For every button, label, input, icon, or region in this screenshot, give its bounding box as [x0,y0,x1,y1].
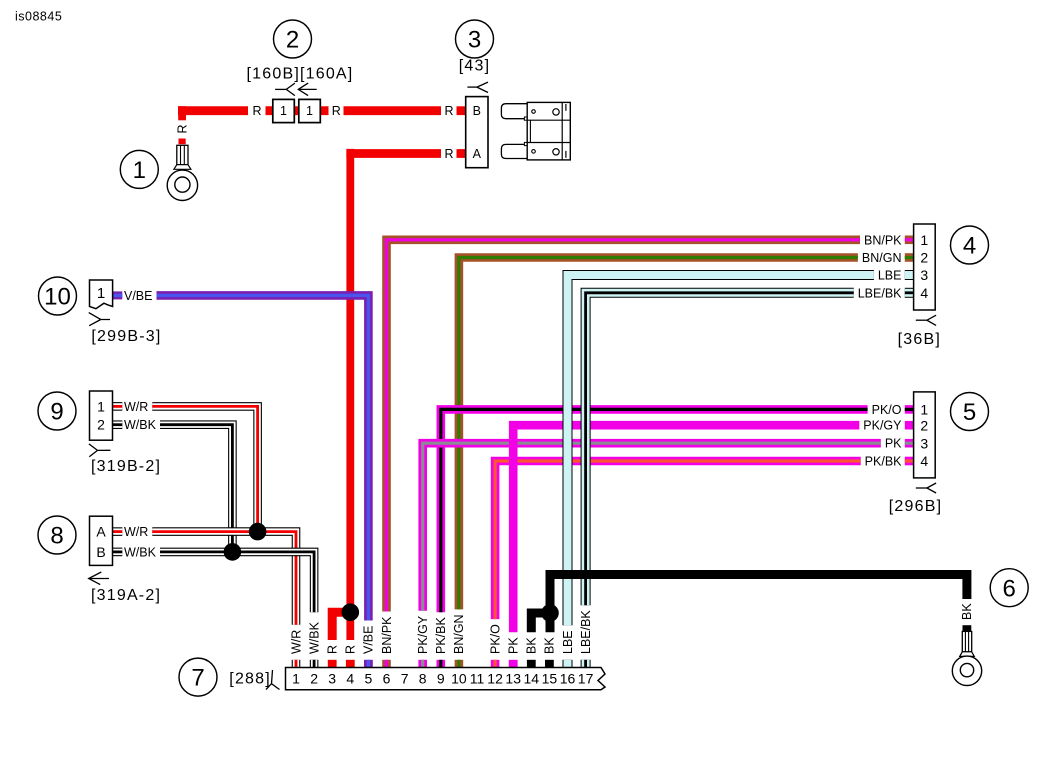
junction dot W/R [249,523,267,541]
junction dot R pins 3-4 [342,603,360,621]
svg-text:2: 2 [97,417,105,433]
svg-text:W/R: W/R [289,630,303,654]
wire R stub into [43] A [457,149,466,158]
arrow symbol [160A] [298,88,316,90]
svg-text:B: B [96,544,105,560]
svg-text:R: R [445,147,454,161]
svg-text:5: 5 [963,399,976,426]
svg-text:9: 9 [437,671,445,687]
wire R stub into [43] B [457,106,466,115]
svg-text:W/R: W/R [124,400,148,414]
svg-text:R: R [175,124,189,133]
svg-text:BN/GN: BN/GN [862,251,902,265]
wire R top run seg1 [178,106,248,115]
callout circle 3 [456,20,494,58]
svg-text:7: 7 [191,665,204,692]
svg-text:2: 2 [286,27,299,54]
wire R top run seg2 [266,106,329,115]
svg-text:V/BE: V/BE [124,289,153,303]
svg-text:A: A [473,147,482,161]
connector [43] box [466,97,488,168]
svg-text:BN/PK: BN/PK [864,233,902,247]
wire BN/GN stub pin 10 [455,660,464,668]
wire PK [296B]3 to pin 8 [423,443,881,611]
svg-text:BK: BK [543,637,557,654]
wire BK staple pin 14 [531,613,546,632]
callout circle 5 [951,393,989,431]
svg-text:1: 1 [97,285,105,302]
svg-text:PK/BK: PK/BK [865,455,902,469]
wire LBE stub pin 16 [563,660,573,668]
arrow symbol [43] [467,86,477,88]
svg-text:LBE: LBE [561,630,575,654]
wire V/BE stub at [299B-3] [113,291,123,299]
connector [299B-3] box [90,280,113,309]
fuse symbol at [43] [501,102,570,159]
svg-text:3: 3 [468,27,481,54]
svg-text:4: 4 [920,285,928,301]
wire W/BK stub pin 2 [310,660,319,668]
wire PK/BK stub pin 12 [491,660,500,668]
arrow symbol [319A-2] [89,578,109,580]
wire PK/O [296B]1 to pin 9 [441,409,868,612]
svg-text:1: 1 [920,232,928,248]
wire PK/O stub pin 9 [436,660,445,668]
svg-text:R: R [332,104,341,118]
svg-text:PK/GY: PK/GY [416,615,430,654]
svg-text:PK/O: PK/O [872,403,902,417]
connector [160B] box pin 1 [273,99,295,122]
arrow symbol [160B] [275,88,286,90]
wire BN/PK stub pin 6 [382,660,391,668]
junction dot BK pins 14-15 [541,604,559,622]
callout circle 2 [274,20,312,58]
svg-text:1: 1 [920,402,928,418]
svg-text:1: 1 [280,104,287,118]
svg-text:1: 1 [133,157,146,184]
wire BK stub pin 14 [527,660,536,668]
svg-text:10: 10 [44,284,71,311]
wire W/BK stub at [319A-2] B [113,548,123,557]
svg-text:PK: PK [507,637,521,654]
wire PK/BK [296B]4 to pin 12 [495,461,861,619]
wire R trunk to pin 4 [346,149,354,640]
callout circle 8 [38,516,76,554]
svg-text:3: 3 [920,435,928,451]
wire LBE/BK stub at [36B] [905,288,914,298]
wire W/BK from [319A-2] B to pin 2 [160,552,314,612]
wire R run to [43] A [346,149,441,158]
arrow symbol [36B] [916,319,927,321]
svg-text:R: R [253,104,262,118]
connector [296B] box [914,392,936,478]
svg-text:A: A [96,524,106,540]
svg-text:V/BE: V/BE [362,626,376,655]
callout circle 7 [179,658,217,696]
svg-text:2: 2 [920,250,928,266]
wire PK/GY [296B]2 to pin 13 [513,425,859,632]
svg-text:4: 4 [920,453,928,469]
svg-text:2: 2 [920,417,928,433]
wire W/R stub at [319A-2] A [113,527,123,536]
svg-text:1: 1 [306,104,313,118]
svg-text:BN/GN: BN/GN [452,614,466,654]
wire R stub pin 4 [346,660,355,668]
svg-text:10: 10 [451,671,467,687]
ring terminal 1 [177,145,188,164]
svg-text:13: 13 [505,671,521,687]
wire BK stub pin 15 [545,660,554,668]
svg-text:[160B][160A]: [160B][160A] [247,66,354,83]
svg-text:4: 4 [346,671,354,687]
svg-text:[319B-2]: [319B-2] [91,458,161,475]
svg-text:3: 3 [920,267,928,283]
svg-text:[43]: [43] [459,58,491,75]
wire V/BE stub pin 5 [364,660,373,668]
svg-text:8: 8 [50,523,63,550]
junction dot W/BK [224,543,242,561]
wire R stub pin 3 [328,660,337,668]
wire W/R from [319A-2] A to pin 1 [152,532,296,625]
wire PK stub at [296B] [905,439,914,448]
svg-text:LBE/BK: LBE/BK [579,610,593,654]
wire BN/GN [36B]2 to pin 10 [459,258,858,610]
wire LBE/BK stub pin 17 [581,660,591,668]
svg-text:7: 7 [401,671,409,687]
svg-text:R: R [344,645,358,654]
svg-text:R: R [445,104,454,118]
connector [36B] box [914,224,936,310]
svg-text:LBE: LBE [878,269,902,283]
svg-text:R: R [326,645,340,654]
wire BK main run to terminal 6 [550,575,967,633]
svg-text:PK/GY: PK/GY [863,419,902,433]
svg-text:5: 5 [365,671,373,687]
connector [319A-2] box [90,516,113,565]
wire W/R stub at [319B-2] 1 [113,402,123,411]
wire PK/GY stub at [296B] [905,421,914,430]
svg-text:[288]: [288] [229,670,271,687]
wire W/BK from [319B-2] 2 [160,425,232,552]
wire BN/PK [36B]1 to pin 6 [387,240,861,612]
svg-text:PK/O: PK/O [488,624,502,654]
wire LBE stub at [36B] [905,270,914,280]
connector [319B-2] box [90,391,113,440]
svg-text:B: B [473,104,481,118]
wire LBE [36B]3 to pin 16 [568,275,874,625]
svg-text:BK: BK [960,603,974,620]
wire BN/PK stub at [36B] [905,236,914,245]
svg-text:2: 2 [310,671,318,687]
svg-text:W/BK: W/BK [124,545,157,559]
wire PK/GY stub pin 13 [509,660,518,668]
svg-text:W/R: W/R [124,525,148,539]
wire LBE/BK [36B]4 to pin 17 [586,293,854,605]
svg-text:8: 8 [419,671,427,687]
wire PK stub pin 8 [418,660,427,668]
svg-text:[319A-2]: [319A-2] [91,587,161,604]
svg-text:15: 15 [542,671,558,687]
callout circle 9 [38,392,76,430]
callout circle 1 [120,150,158,188]
svg-text:PK: PK [885,437,902,451]
wire V/BE run to pin 5 [157,295,369,620]
svg-text:9: 9 [50,399,63,426]
svg-text:[296B]: [296B] [889,498,942,515]
wire R terminal-1 stub [179,139,186,145]
svg-text:is08845: is08845 [15,10,62,24]
ring terminal 6 [962,631,971,651]
svg-text:16: 16 [560,671,576,687]
arrow symbol [299B-3] [89,313,110,320]
callout circle 6 [990,569,1028,607]
wire BK terminal-6 stub [963,625,972,631]
svg-text:W/BK: W/BK [307,621,321,654]
svg-text:BK: BK [525,637,539,654]
svg-text:6: 6 [1003,575,1016,602]
wire R terminal-1 leg [178,106,186,120]
wire R staple pin 3 [332,612,346,640]
wire W/R from [319B-2] 1 [152,406,257,531]
svg-text:6: 6 [383,671,391,687]
wire PK/BK stub at [296B] [905,457,914,466]
wire PK/O stub at [296B] [905,405,914,414]
svg-text:LBE/BK: LBE/BK [858,286,902,300]
connector [288] box [286,668,606,690]
svg-text:1: 1 [292,671,300,687]
svg-text:1: 1 [97,398,105,414]
svg-text:4: 4 [963,233,976,260]
svg-text:11: 11 [470,671,485,687]
connector [160A] box pin 1 [299,99,321,122]
svg-text:12: 12 [487,671,503,687]
callout circle 4 [951,226,989,264]
wire W/R stub pin 1 [292,660,301,668]
svg-text:BN/PK: BN/PK [380,616,394,654]
wire W/BK stub at [319B-2] 2 [113,420,123,429]
callout circle 10 [39,277,77,315]
arrow symbol [319B-2] [89,444,111,451]
svg-text:3: 3 [328,671,336,687]
svg-text:[299B-3]: [299B-3] [91,328,161,345]
wire R top run seg3 [344,106,442,115]
svg-text:W/BK: W/BK [124,418,157,432]
svg-text:[36B]: [36B] [898,331,941,348]
svg-text:PK/BK: PK/BK [434,617,448,654]
wire BN/GN stub at [36B] [905,253,914,262]
svg-text:14: 14 [524,671,540,687]
arrow symbol [296B] [916,487,927,489]
svg-text:17: 17 [578,671,594,687]
arrow symbol [288] [272,670,273,684]
